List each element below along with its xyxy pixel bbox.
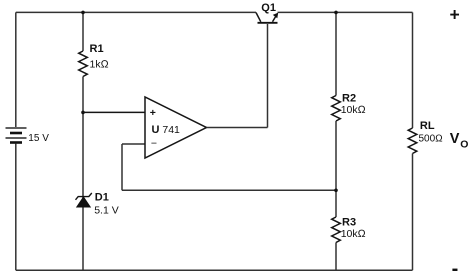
svg-text:-: - — [452, 258, 459, 277]
wire: R3 branch lower — [335, 243, 337, 271]
resistor R3 10kohm — [332, 217, 341, 243]
resistor R2 10kohm — [332, 96, 341, 122]
wire: op-amp output — [207, 127, 268, 129]
svg-text:V: V — [450, 131, 460, 147]
zener diode D1 5.1 V — [76, 193, 92, 207]
svg-text:O: O — [460, 138, 468, 150]
wire: bottom rail — [16, 269, 413, 271]
svg-text:R3: R3 — [342, 216, 356, 228]
battery V1 15 V — [6, 128, 27, 143]
wire: op-amp + input — [83, 111, 145, 113]
wire: op-amp - input stub — [122, 143, 145, 145]
svg-text:D1: D1 — [95, 192, 109, 204]
wire: feedback vertical — [121, 144, 123, 190]
svg-text:10kΩ: 10kΩ — [341, 228, 366, 240]
wire: R1/D1 branch lower — [82, 77, 84, 271]
wire: right rail upper — [412, 12, 414, 128]
junction: feedback / R2-R3 node — [334, 189, 338, 193]
svg-text:1kΩ: 1kΩ — [90, 58, 109, 70]
svg-text:500Ω: 500Ω — [419, 134, 443, 145]
svg-text:U 741: U 741 — [152, 124, 181, 136]
wire: top rail right segment — [278, 11, 413, 13]
junction: top rail / R2 branch — [334, 11, 338, 15]
svg-text:−: − — [151, 137, 157, 149]
junction: R1 branch / op-amp + input — [81, 111, 85, 115]
wire: base lead up to Q1 — [267, 24, 269, 128]
svg-text:+: + — [150, 107, 156, 119]
svg-text:15 V: 15 V — [28, 133, 49, 144]
wire: R1/D1 branch upper — [82, 12, 84, 51]
svg-text:5.1 V: 5.1 V — [94, 204, 119, 216]
wire: top rail left segment — [16, 11, 256, 13]
wire: feedback horizontal to R2/R3 node — [122, 189, 336, 191]
wire: right rail lower — [412, 154, 414, 271]
svg-text:RL: RL — [420, 120, 435, 132]
svg-text:Q1: Q1 — [261, 2, 276, 14]
op-amp U1 741 — [145, 97, 207, 158]
resistor RL 500ohm — [408, 128, 417, 154]
wire: left rail upper (to battery) — [15, 12, 17, 127]
junction: top rail / R1 branch — [81, 11, 85, 15]
svg-text:R2: R2 — [342, 92, 356, 104]
transistor Q1 — [256, 13, 278, 23]
wire: left rail lower (battery to bottom) — [15, 144, 17, 271]
svg-text:R1: R1 — [90, 43, 104, 55]
svg-text:10kΩ: 10kΩ — [341, 104, 366, 116]
svg-text:+: + — [449, 5, 459, 25]
wire: R2/R3 branch upper — [335, 12, 337, 95]
wire: R2 to R3 — [335, 121, 337, 217]
resistor R1 1kohm — [79, 51, 88, 77]
